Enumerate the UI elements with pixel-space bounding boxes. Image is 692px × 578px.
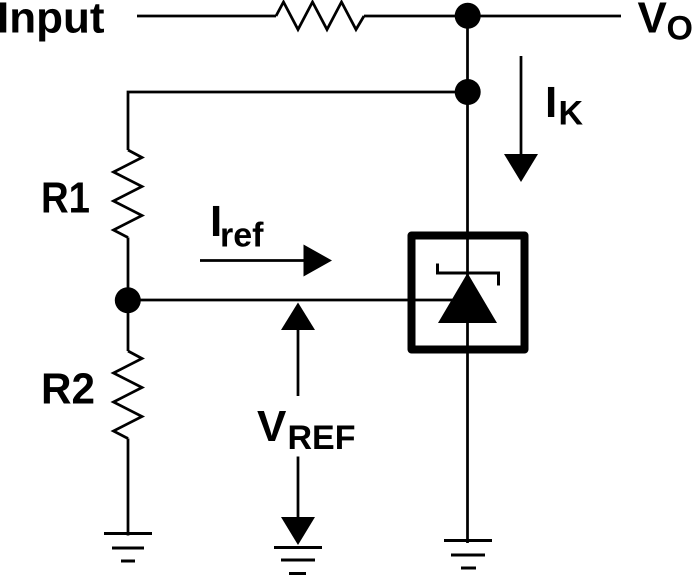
shunt regulator U1 box: [412, 236, 525, 350]
svg-text:K: K: [559, 95, 584, 133]
U1 cathode bar: [438, 264, 499, 286]
resistor R2: [114, 351, 143, 439]
voltage arrow VREF down: [281, 457, 315, 546]
wire VO node down to U1 and ground: [466, 16, 469, 543]
svg-text:O: O: [667, 10, 692, 48]
svg-text:V: V: [638, 0, 668, 43]
node VO junction: [455, 3, 481, 29]
label IK: [545, 78, 584, 133]
svg-text:REF: REF: [288, 419, 356, 457]
resistor R1: [114, 150, 143, 238]
resistor series input: [276, 2, 364, 30]
label Input: [0, 0, 105, 43]
label Iref: [210, 197, 264, 255]
voltage arrow VREF up: [281, 303, 315, 397]
current arrow Iref: [200, 245, 332, 277]
label R1: [41, 174, 90, 223]
wire Input to series resistor: [137, 15, 276, 18]
U1 anode triangle: [438, 273, 497, 323]
wire series resistor to VO node: [364, 15, 621, 18]
label R2: [41, 365, 95, 414]
svg-text:I: I: [545, 78, 557, 127]
wire feedback horizontal: [128, 92, 468, 150]
svg-text:ref: ref: [220, 217, 264, 255]
wire R1 to divider node: [127, 238, 130, 301]
svg-text:Input: Input: [0, 0, 105, 43]
wire divider node to R2: [127, 300, 130, 351]
node divider junction: [115, 287, 141, 313]
current arrow IK: [504, 56, 538, 182]
node feedback junction: [455, 79, 481, 105]
wire ref node to U1: [128, 299, 460, 302]
ground left: [104, 534, 152, 562]
label VO: [638, 0, 692, 48]
svg-text:R2: R2: [41, 365, 95, 414]
svg-text:R1: R1: [41, 174, 90, 223]
label VREF: [257, 402, 356, 457]
wire R2 to ground: [127, 439, 130, 536]
svg-text:V: V: [257, 402, 287, 451]
ground right: [444, 541, 492, 569]
ground VREF: [274, 548, 322, 574]
